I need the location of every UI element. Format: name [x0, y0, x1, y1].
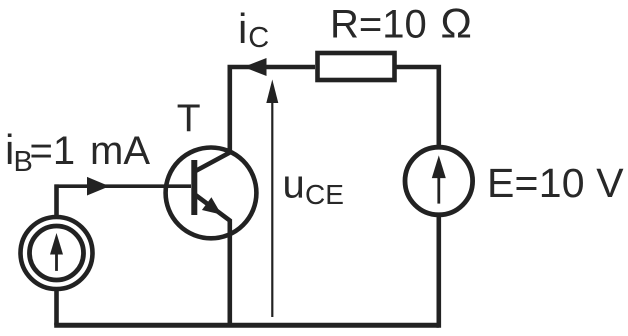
svg-text:mA: mA — [90, 129, 150, 173]
source E circle — [405, 147, 473, 215]
wire: left vertical from source bottom to bottom wire — [54, 289, 59, 325]
source E arrow shaft — [437, 176, 440, 204]
current source IB arrowhead — [50, 233, 63, 255]
voltage arrow uCE arrowhead — [266, 80, 278, 104]
wire: bottom wire — [54, 323, 439, 328]
transistor T circle — [166, 148, 257, 239]
current source IB arrow shaft — [55, 250, 58, 271]
transistor T emitter diagonal — [194, 194, 230, 328]
resistor R body — [318, 53, 395, 80]
wire: right vertical from bottom wire to source E — [436, 215, 441, 328]
svg-text:C: C — [248, 22, 269, 54]
svg-text:=1: =1 — [30, 129, 76, 173]
svg-text:T: T — [177, 97, 201, 140]
current source IB inner circle — [30, 226, 84, 280]
svg-text:Ω: Ω — [441, 0, 472, 47]
svg-text:R=10: R=10 — [330, 2, 427, 46]
node arrow: collector current iC arrowhead — [244, 58, 267, 76]
wire: top wire from resistor left to collector corner, down collector — [196, 67, 316, 171]
source E arrowhead — [432, 155, 446, 178]
wire: base wire from current source to transistor base — [57, 186, 192, 188]
svg-text:E=10 V: E=10 V — [487, 160, 624, 206]
svg-text:u: u — [283, 163, 305, 207]
current source IB outer circle — [21, 217, 93, 289]
transistor T emitter arrowhead — [202, 197, 222, 214]
svg-text:i: i — [238, 5, 247, 52]
wire: right vertical from source E top to top wire corner, then left to resistor — [396, 67, 439, 148]
transistor T base bar — [191, 160, 197, 215]
node arrow: base current arrowhead — [87, 177, 109, 196]
wire: left vertical from base wire corner down to source top — [54, 184, 59, 217]
voltage arrow uCE shaft — [271, 84, 273, 317]
svg-text:CE: CE — [305, 179, 344, 210]
